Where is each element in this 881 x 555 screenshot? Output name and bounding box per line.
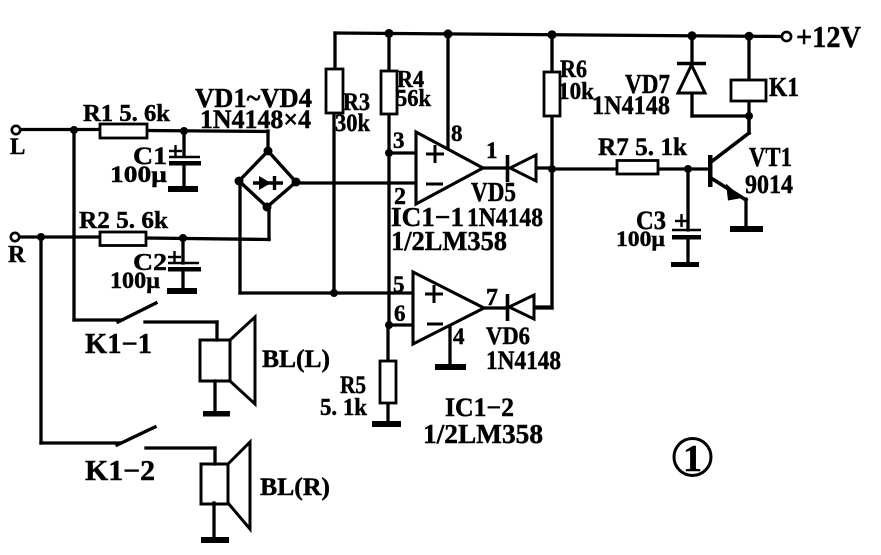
svg-text:4: 4 <box>453 324 465 349</box>
svg-text:100µ: 100µ <box>616 226 665 251</box>
svg-text:1: 1 <box>683 438 702 480</box>
svg-text:5: 5 <box>393 272 405 297</box>
svg-text:100µ: 100µ <box>110 162 167 187</box>
svg-text:6: 6 <box>394 301 406 326</box>
svg-text:3: 3 <box>393 128 405 153</box>
svg-text:VT1: VT1 <box>749 142 792 172</box>
svg-text:1N4148: 1N4148 <box>486 346 561 375</box>
svg-text:2: 2 <box>394 184 406 210</box>
svg-text:1: 1 <box>486 138 498 163</box>
svg-text:1N4148×4: 1N4148×4 <box>200 105 311 134</box>
svg-text:L: L <box>10 134 25 159</box>
svg-text:1/2LM358: 1/2LM358 <box>391 226 507 256</box>
svg-text:100µ: 100µ <box>110 268 160 293</box>
svg-text:+12V: +12V <box>796 19 862 54</box>
svg-text:R: R <box>8 242 26 268</box>
svg-text:5. 1k: 5. 1k <box>320 395 368 421</box>
svg-text:R1 5. 6k: R1 5. 6k <box>83 101 171 127</box>
svg-text:56k: 56k <box>396 86 432 112</box>
svg-text:K1−2: K1−2 <box>85 456 155 487</box>
svg-text:R2 5. 6k: R2 5. 6k <box>79 208 169 234</box>
svg-text:1/2LM358: 1/2LM358 <box>423 419 543 449</box>
svg-text:BL(R): BL(R) <box>260 474 330 501</box>
svg-text:R7 5. 1k: R7 5. 1k <box>598 134 687 161</box>
svg-text:9014: 9014 <box>745 170 793 199</box>
svg-text:IC1−2: IC1−2 <box>445 393 514 422</box>
svg-text:10k: 10k <box>558 79 595 105</box>
svg-text:K1−1: K1−1 <box>85 329 152 360</box>
svg-text:30k: 30k <box>335 110 370 137</box>
svg-text:7: 7 <box>486 285 498 311</box>
svg-text:BL(L): BL(L) <box>262 346 330 373</box>
svg-text:8: 8 <box>451 121 463 146</box>
svg-text:1N4148: 1N4148 <box>592 91 670 120</box>
svg-text:K1: K1 <box>769 72 799 102</box>
